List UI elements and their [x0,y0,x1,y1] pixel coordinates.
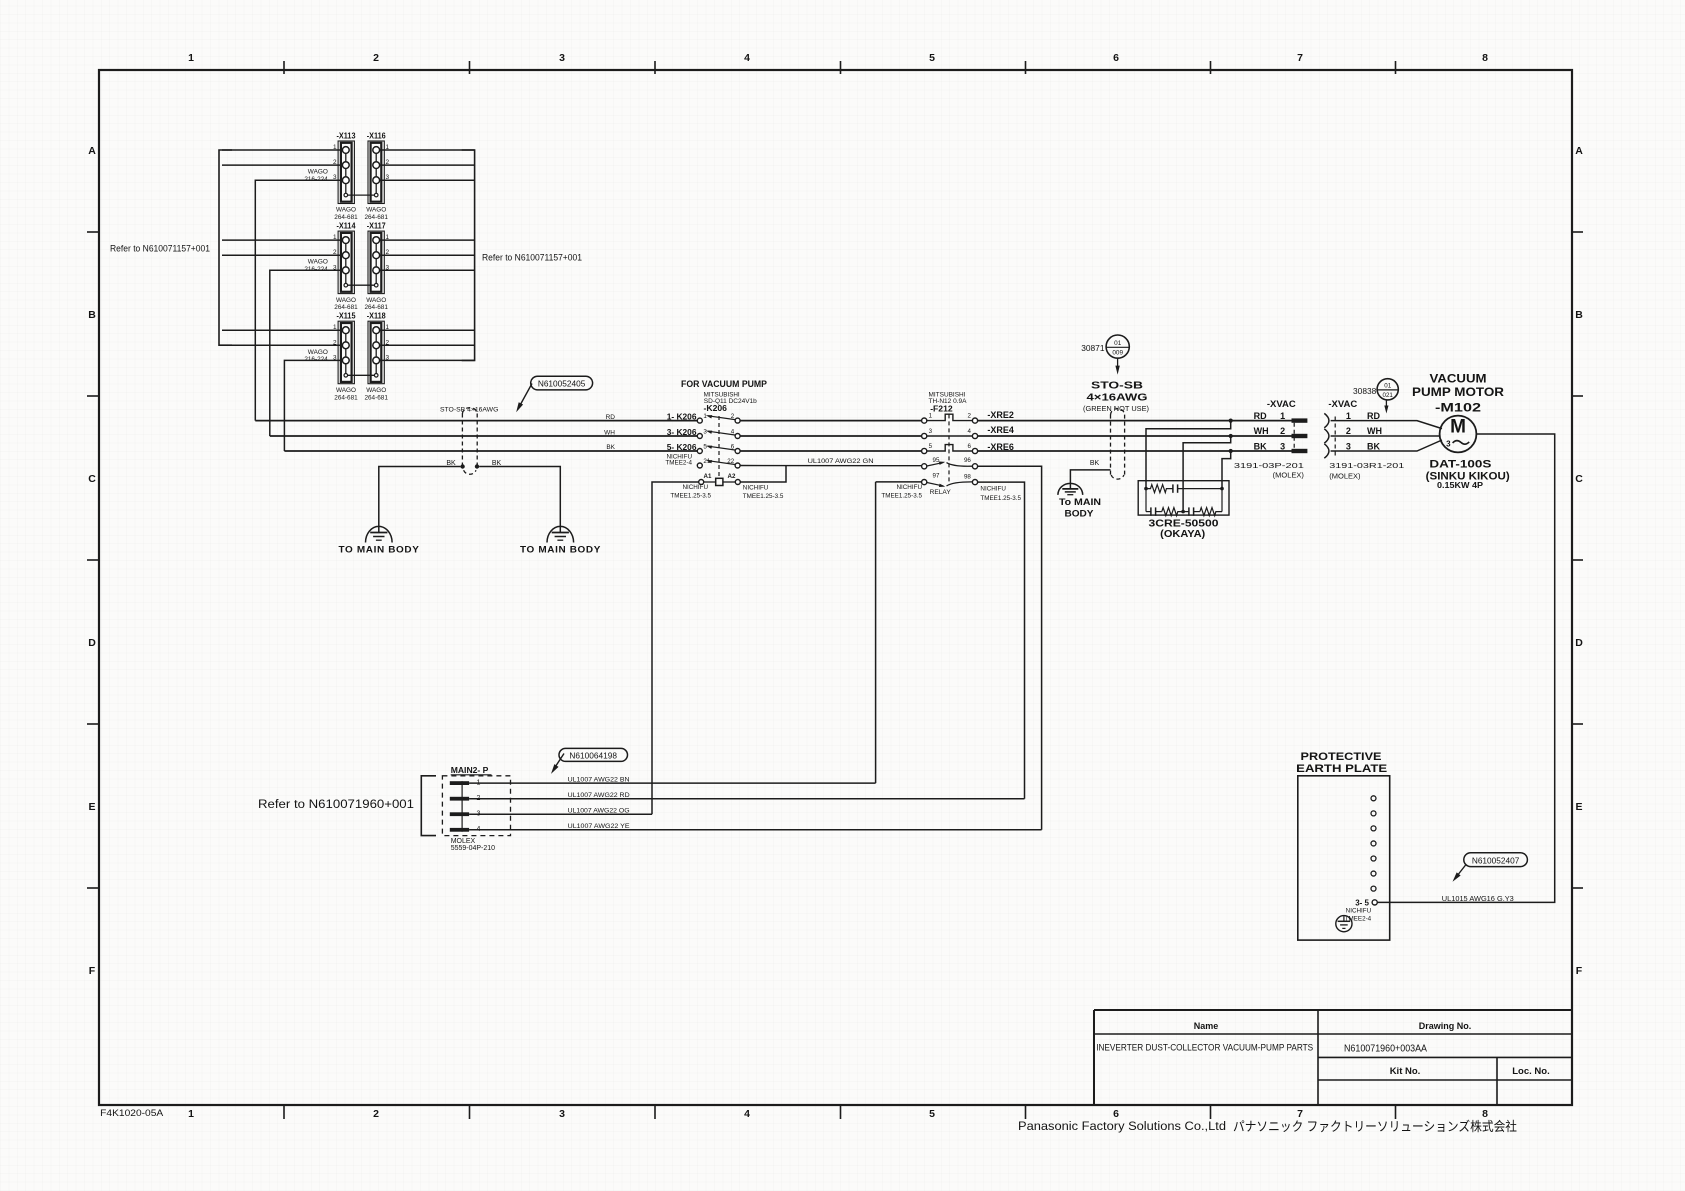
svg-text:5: 5 [929,52,935,64]
motor M102 circle [1440,416,1477,453]
svg-text:TMEE1.25-3.5: TMEE1.25-3.5 [881,492,922,499]
svg-text:5: 5 [929,1108,935,1120]
svg-text:UL1007 AWG22 RD: UL1007 AWG22 RD [568,792,630,799]
svg-text:3- K206: 3- K206 [667,427,697,437]
svg-text:5: 5 [703,444,707,451]
svg-text:Name: Name [1194,1021,1219,1031]
svg-text:INEVERTER DUST-COLLECTOR VACUU: INEVERTER DUST-COLLECTOR VACUUM-PUMP PAR… [1096,1043,1313,1053]
wire X118.2 to right harness [380,344,475,346]
svg-text:-XVAC: -XVAC [1328,399,1357,410]
svg-text:Loc. No.: Loc. No. [1512,1066,1549,1077]
wire BK tap to filter [1222,451,1231,489]
svg-text:-K206: -K206 [704,403,728,413]
svg-text:A: A [88,145,96,157]
wire MAIN2-P pin3 OG [469,813,652,815]
svg-text:WAGO: WAGO [336,207,356,214]
svg-text:TMEE1.25-3.5: TMEE1.25-3.5 [743,493,784,500]
svg-text:-M102: -M102 [1435,401,1481,415]
cable marker STO-SB (dashed capsule) [462,408,477,475]
wire BK shield to left ground [379,467,461,533]
contactor K206 main contact 1-2 [697,413,740,423]
wire RD bus X113 to K206 pin1 [255,420,697,422]
svg-text:3: 3 [559,52,565,64]
svg-text:2: 2 [373,1108,379,1120]
svg-text:TO MAIN BODY: TO MAIN BODY [339,545,420,555]
svg-text:RELAY: RELAY [930,489,952,496]
leader arrow for N610064198 [549,754,564,776]
wire link -X113--X116 [348,194,375,196]
contactor K206 mechanical link (dashed) [718,416,720,478]
svg-text:-X117: -X117 [367,222,387,231]
svg-text:96: 96 [964,457,971,464]
svg-text:95: 95 [933,457,940,464]
junction dot cable left [460,464,464,468]
svg-text:264-681: 264-681 [364,214,388,221]
svg-text:264-681: 264-681 [334,214,358,221]
svg-text:DAT-100S: DAT-100S [1429,458,1491,470]
contactor K206 main contact 5-6 [697,444,740,454]
svg-text:Refer to N610071960+001: Refer to N610071960+001 [258,797,414,811]
svg-text:4: 4 [968,428,972,435]
svg-text:A1: A1 [704,473,712,480]
ground symbol TO MAIN BODY (right) [547,526,574,542]
svg-text:8: 8 [1482,52,1488,64]
harness bracket left [219,150,232,345]
MAIN2-P pin 4 [450,828,469,832]
wire X113.2 to left harness [222,164,342,166]
svg-text:-X115: -X115 [337,312,357,321]
svg-text:NICHIFU: NICHIFU [896,484,922,491]
title block [1094,1010,1571,1105]
column tick marks top [284,61,1396,74]
svg-text:F: F [1576,965,1583,977]
protective earth plate outline [1298,776,1390,940]
wire X118.1 to right harness [380,329,475,331]
svg-text:WAGO: WAGO [308,169,328,176]
svg-text:STO-SB: STO-SB [1091,380,1143,391]
svg-text:D: D [88,637,96,649]
wire BK F212 pin6 to XVAC pin3 [978,450,1292,452]
wire X117.2 to right harness [380,254,475,256]
svg-text:N610071960+003AA: N610071960+003AA [1344,1043,1427,1055]
junction dot filter bottom-middle [1181,510,1185,514]
svg-text:NICHIFU: NICHIFU [980,486,1006,493]
leader arrow for N610052405 [514,384,532,414]
svg-text:BK: BK [1254,441,1267,451]
wire WH F212 pin4 to XVAC pin2 [978,435,1292,437]
filter resistor bottom-right [1200,508,1222,516]
arrow from balloon 01/021 [1384,400,1388,414]
row letters right [1575,145,1583,977]
MAIN2-P pin bus line [461,781,463,832]
svg-text:264-681: 264-681 [334,394,358,401]
svg-text:WAGO: WAGO [366,387,386,394]
svg-text:2: 2 [373,52,379,64]
XVAC female contact 3 [1324,444,1329,458]
svg-text:UL1007 AWG22 GN: UL1007 AWG22 GN [808,458,874,465]
relay F212 heater element 3-4 [922,428,978,439]
svg-text:A: A [1575,145,1583,157]
svg-text:1: 1 [188,1108,194,1120]
svg-text:0.15KW 4P: 0.15KW 4P [1437,481,1484,490]
svg-text:UL1007 AWG22 OG: UL1007 AWG22 OG [568,807,630,814]
connector -X117 [364,222,389,312]
svg-text:-X118: -X118 [367,312,387,321]
svg-text:UL1007 AWG22 BN: UL1007 AWG22 BN [568,776,630,783]
wire motor frame to earth plate [1377,434,1554,902]
wire MAIN2-P pin2 RD [469,798,1024,800]
XVAC receptacle dashed outline [1334,417,1336,458]
svg-text:-XRE4: -XRE4 [987,425,1014,435]
leader arrow for N610052407 [1451,865,1466,884]
MAIN2-P pin 1 [450,781,469,785]
junction dot filter top-right [1220,487,1224,491]
svg-text:BK: BK [1090,460,1100,467]
svg-text:VACUUM: VACUUM [1430,372,1487,386]
wire BK bus X115 to K206 pin5 [284,450,697,452]
filter capacitor bottom-left [1146,507,1162,515]
column numbers bottom [188,1108,1488,1120]
relay F212 contact 97-98 [922,473,978,489]
MAIN2-P pin 3 [450,812,469,816]
svg-text:-XRE2: -XRE2 [987,410,1014,420]
XVAC female contact 2 [1324,429,1329,443]
wire BK K206 pin6 to F212 pin5 [740,450,922,452]
svg-text:WAGO: WAGO [366,207,386,214]
wire X114.3 down to WH bus [270,270,343,436]
svg-text:C: C [88,473,96,485]
svg-text:FOR VACUUM PUMP: FOR VACUUM PUMP [681,379,767,389]
svg-text:RD: RD [1367,411,1380,421]
svg-text:UL1015 AWG16 G.Y3: UL1015 AWG16 G.Y3 [1442,896,1514,903]
svg-text:3: 3 [703,429,707,436]
XVAC plug dashed outline [1293,423,1295,449]
svg-text:(MOLEX): (MOLEX) [1273,471,1305,480]
svg-text:WAGO: WAGO [336,387,356,394]
svg-text:E: E [1575,801,1582,813]
svg-text:22: 22 [727,458,734,465]
earth plate terminal 3-5 [1372,900,1377,905]
svg-text:Panasonic Factory Solutions Co: Panasonic Factory Solutions Co.,Ltd [1018,1119,1226,1133]
svg-text:N610064198: N610064198 [569,750,617,760]
svg-text:A2: A2 [728,473,736,480]
svg-text:NICHIFU: NICHIFU [743,485,769,492]
wire X114.1 to left harness [222,239,342,241]
svg-text:M: M [1450,417,1466,438]
XVAC male pin 1 [1292,418,1308,422]
svg-text:30871: 30871 [1081,343,1105,353]
svg-text:WH: WH [604,429,615,436]
svg-text:21: 21 [703,458,710,465]
svg-text:264-681: 264-681 [364,394,388,401]
svg-text:1: 1 [1346,411,1351,421]
callout balloon N610052407 [1464,853,1528,867]
svg-text:WAGO: WAGO [336,297,356,304]
wire X116.1 to right harness [380,149,475,151]
svg-text:(OKAYA): (OKAYA) [1160,529,1205,540]
svg-text:-XVAC: -XVAC [1267,399,1296,410]
svg-text:BK: BK [606,444,615,451]
svg-text:3191-03R1-201: 3191-03R1-201 [1329,461,1404,470]
svg-text:BODY: BODY [1065,508,1095,519]
svg-text:E: E [88,801,95,813]
svg-text:216-224: 216-224 [304,356,328,363]
svg-text:To MAIN: To MAIN [1059,496,1101,507]
svg-text:021: 021 [1383,392,1394,399]
svg-text:BK: BK [1367,441,1380,451]
svg-text:3- 5: 3- 5 [1355,899,1369,908]
svg-text:2: 2 [1346,426,1351,436]
svg-text:MOLEX: MOLEX [451,838,476,845]
filter capacitor top [1173,484,1222,492]
svg-text:2: 2 [731,413,735,420]
contactor K206 aux contact 21-22 [697,458,740,468]
svg-text:009: 009 [1112,350,1123,357]
svg-text:1: 1 [188,52,194,64]
callout balloon N610052405 [531,376,593,390]
row tick marks right [1571,232,1583,888]
wire WH XVAC to motor [1331,435,1440,437]
svg-text:5- K206: 5- K206 [667,442,697,452]
svg-text:RD: RD [606,414,616,421]
svg-text:MAIN2- P: MAIN2- P [451,765,489,775]
connector -X118 [364,312,389,402]
svg-text:Refer to N610071157+001: Refer to N610071157+001 [110,244,210,254]
svg-text:N610052405: N610052405 [538,379,586,389]
wire X113.1 to left harness [222,149,342,151]
contactor K206 coil A1-A2 [699,473,741,486]
wire X115.2 to left harness [222,344,342,346]
svg-text:(MOLEX): (MOLEX) [1329,471,1361,480]
svg-text:01: 01 [1384,383,1391,390]
earth plate holes [1371,796,1376,891]
svg-text:TMEE2-4: TMEE2-4 [665,460,692,467]
svg-text:1- K206: 1- K206 [667,411,697,421]
svg-text:WAGO: WAGO [308,349,328,356]
svg-text:97: 97 [933,473,940,480]
wire link -X115--X118 [348,374,375,376]
svg-text:C: C [1575,473,1583,485]
wire link -X114--X117 [348,284,375,286]
svg-text:RD: RD [1254,411,1267,421]
wire X116.3 to right harness [380,179,475,181]
svg-text:216-224: 216-224 [304,176,328,183]
column numbers top [188,52,1488,64]
wire GN K206 pin22 to F212 pin95 [740,465,922,467]
arrow from balloon 01/009 [1115,358,1119,374]
svg-text:6: 6 [968,443,972,450]
ground symbol To MAIN BODY [1058,483,1083,495]
svg-text:B: B [88,309,96,321]
svg-text:TMEE1.25-3.5: TMEE1.25-3.5 [980,495,1021,502]
svg-text:3191-03P-201: 3191-03P-201 [1234,461,1304,470]
connector -X113 [304,132,358,222]
svg-text:WH: WH [1367,426,1382,436]
wire WH K206 pin4 to F212 pin3 [740,435,922,437]
wire F212 pin98 to MAIN2-P pin2 (RD) [978,482,1025,799]
connector -X115 [304,312,358,402]
svg-text:1: 1 [929,413,933,420]
connector -X114 [304,222,358,312]
wire RD F212 pin2 to XVAC pin1 [978,420,1292,422]
svg-text:-X113: -X113 [337,132,357,141]
wire MAIN2-P pin1 BN [469,782,875,784]
svg-text:3: 3 [1446,439,1451,448]
wire X117.1 to right harness [380,239,475,241]
svg-text:4: 4 [731,429,735,436]
wire WH bus X114 to K206 pin3 [270,435,698,437]
svg-text:30838: 30838 [1353,386,1377,396]
svg-text:PROTECTIVE: PROTECTIVE [1301,751,1382,763]
svg-text:1: 1 [1280,411,1285,421]
svg-text:TMEE1.25-3.5: TMEE1.25-3.5 [670,492,711,499]
junction dot BK tap [1229,449,1233,453]
svg-text:01: 01 [1114,340,1122,347]
wire X116.2 to right harness [380,164,475,166]
ground symbol TO MAIN BODY (left) [366,526,393,542]
svg-text:WAGO: WAGO [366,297,386,304]
wire K206 A2 riser to GN wire [740,466,786,482]
wire X115.3 down to BK bus [284,360,342,451]
junction dot RD tap [1229,419,1233,423]
filter 3CRE-50500 box [1138,481,1229,515]
revision balloon 01/009 [1106,335,1129,358]
filter resistor top [1146,485,1173,493]
relay F212 heater element 1-2 [922,413,978,424]
svg-text:3: 3 [929,428,933,435]
svg-text:WH: WH [1254,426,1269,436]
svg-text:4: 4 [744,1108,750,1120]
wire RD XVAC to motor [1331,421,1442,429]
wire X113.3 down to RD bus [255,180,342,420]
earth symbol on plate [1336,916,1352,932]
svg-text:7: 7 [1297,52,1303,64]
wire F212 pin96 to MAIN2-P pin4 (YE) [978,466,1042,830]
filter left leg [1145,489,1147,512]
XVAC male pin 3 [1292,449,1308,453]
filter resistor bottom-left [1162,508,1183,516]
MAIN2-P pin 2 [450,797,469,801]
filter right leg [1221,489,1223,512]
svg-text:Kit No.: Kit No. [1390,1066,1421,1077]
svg-text:-X114: -X114 [337,222,357,231]
svg-text:216-224: 216-224 [304,266,328,273]
svg-text:264-681: 264-681 [334,304,358,311]
harness bracket MAIN2-P [421,776,436,836]
wire X114.2 to left harness [222,254,342,256]
XVAC male pin 2 [1292,434,1308,438]
wire RD K206 pin2 to F212 pin1 [740,420,922,422]
svg-text:3: 3 [559,1108,565,1120]
svg-text:B: B [1575,309,1583,321]
cable marker STO-SB right (dashed capsule) [1111,409,1125,479]
row letters left [88,145,96,977]
svg-text:(GREEN NOT USE): (GREEN NOT USE) [1083,406,1149,413]
wire X118.3 to right harness [380,359,475,361]
wire X117.3 to right harness [380,269,475,271]
connector MAIN2-P dashed outline [442,776,510,836]
svg-text:6: 6 [731,444,735,451]
svg-text:5559-04P-210: 5559-04P-210 [451,845,495,852]
svg-text:6: 6 [1113,52,1119,64]
row tick marks left [87,232,100,888]
relay F212 heater element 5-6 [922,443,978,454]
svg-text:264-681: 264-681 [364,304,388,311]
svg-text:WAGO: WAGO [308,259,328,266]
filter capacitor bottom-right [1183,507,1200,515]
svg-text:PUMP MOTOR: PUMP MOTOR [1412,385,1504,399]
svg-text:D: D [1575,637,1583,649]
svg-text:F: F [89,965,96,977]
wire X115.1 to left harness [222,329,342,331]
svg-text:NICHIFU: NICHIFU [1346,908,1372,915]
svg-text:Drawing No.: Drawing No. [1419,1021,1472,1031]
svg-text:-X116: -X116 [367,132,387,141]
junction dot filter top-left [1144,487,1148,491]
contactor K206 main contact 3-4 [697,429,740,439]
svg-text:2: 2 [1280,426,1285,436]
svg-text:-F212: -F212 [930,403,953,413]
svg-text:TO MAIN BODY: TO MAIN BODY [520,545,601,555]
relay F212 dashed link [948,414,950,485]
wire K206 A1 to MAIN2-P pin3 (OG) [652,482,699,814]
wire BK shield right portion to ground [1070,470,1110,489]
svg-text:3: 3 [1346,441,1351,451]
junction dot cable right [475,464,479,468]
svg-text:UL1007 AWG22 YE: UL1007 AWG22 YE [568,823,631,830]
svg-text:NICHIFU: NICHIFU [682,484,708,491]
svg-text:2: 2 [968,413,972,420]
relay F212 contact 95-96 [922,457,978,469]
XVAC female contact 1 [1324,413,1329,427]
wire RD tap to filter [1146,421,1231,489]
column tick marks bottom [284,1105,1396,1119]
drawing border frame [99,70,1572,1105]
junction dot WH tap [1229,434,1233,438]
revision balloon 01/021 [1377,379,1398,400]
svg-text:5: 5 [929,443,933,450]
svg-text:3CRE-50500: 3CRE-50500 [1149,518,1219,529]
harness bracket right [462,150,475,360]
wire BK XVAC to motor [1331,440,1442,451]
svg-text:3: 3 [1280,441,1285,451]
svg-text:Refer to N610071157+001: Refer to N610071157+001 [482,253,582,263]
wire BK shield to right ground [479,467,560,533]
wire MAIN2-P pin4 YE [469,829,1042,831]
svg-text:4×16AWG: 4×16AWG [1087,393,1148,404]
wire WH tap to filter [1183,436,1231,512]
callout balloon N610064198 [559,748,628,761]
connector -X116 [364,132,389,222]
svg-text:パナソニック ファクトリーソリューションズ株式会社: パナソニック ファクトリーソリューションズ株式会社 [1233,1119,1517,1134]
svg-text:EARTH PLATE: EARTH PLATE [1296,763,1387,775]
svg-text:98: 98 [964,473,971,480]
svg-text:F4K1020-05A: F4K1020-05A [100,1108,164,1119]
svg-text:N610052407: N610052407 [1472,855,1520,865]
wire F212 pin97 to MAIN2-P pin1 (BN) [876,482,922,783]
svg-text:4: 4 [744,52,750,64]
svg-text:1: 1 [703,413,707,420]
